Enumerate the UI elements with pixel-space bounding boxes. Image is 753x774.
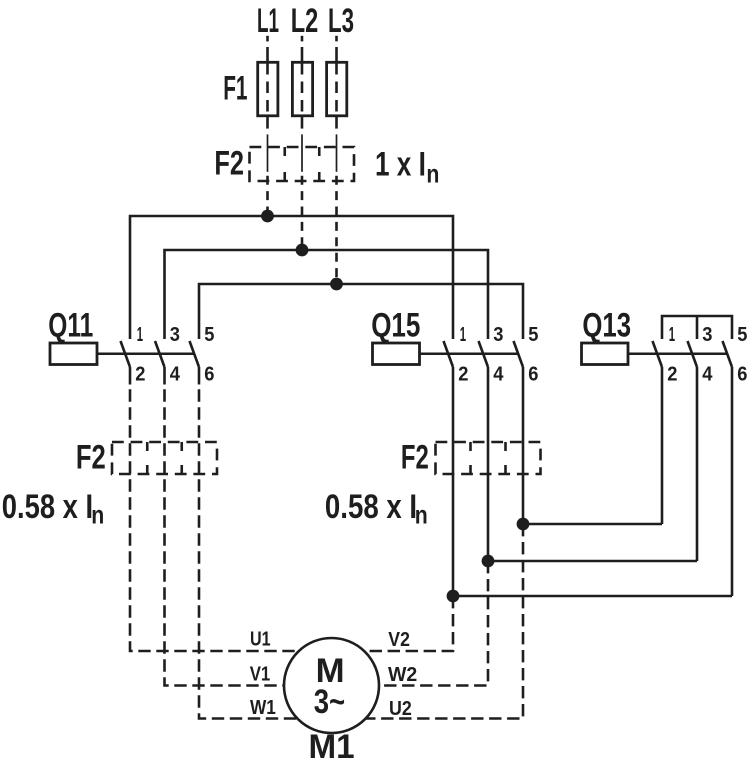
svg-text:6: 6 (737, 363, 747, 386)
svg-text:3: 3 (702, 323, 712, 346)
svg-text:1: 1 (669, 323, 675, 346)
svg-text:U1: U1 (250, 628, 271, 651)
svg-text:L1: L1 (257, 2, 279, 40)
svg-text:3: 3 (170, 323, 180, 346)
svg-text:6: 6 (528, 363, 538, 386)
svg-text:0.58 x I: 0.58 x I (325, 488, 417, 526)
svg-text:L3: L3 (328, 2, 354, 40)
svg-text:4: 4 (170, 363, 181, 386)
svg-text:2: 2 (458, 363, 468, 386)
svg-text:5: 5 (528, 323, 538, 346)
svg-text:L2: L2 (291, 2, 319, 40)
svg-text:W1: W1 (250, 696, 276, 719)
svg-text:F2: F2 (214, 145, 244, 183)
svg-text:0.58 x I: 0.58 x I (2, 488, 93, 526)
svg-text:3: 3 (493, 323, 503, 346)
svg-text:V1: V1 (250, 663, 271, 686)
svg-text:1 x I: 1 x I (375, 146, 426, 184)
svg-text:F2: F2 (76, 438, 106, 476)
svg-text:F2: F2 (401, 438, 429, 476)
svg-text:2: 2 (135, 363, 145, 386)
svg-text:M1: M1 (308, 728, 354, 766)
svg-text:W2: W2 (388, 663, 417, 686)
svg-text:n: n (426, 159, 439, 189)
svg-text:n: n (91, 500, 104, 530)
svg-text:6: 6 (204, 363, 214, 386)
svg-text:Q13: Q13 (582, 307, 631, 345)
svg-text:F1: F1 (223, 70, 247, 108)
svg-text:n: n (415, 500, 428, 530)
svg-text:V2: V2 (388, 628, 410, 651)
svg-text:Q15: Q15 (371, 307, 420, 345)
svg-text:Q11: Q11 (48, 307, 93, 345)
svg-text:4: 4 (702, 363, 713, 386)
svg-text:U2: U2 (389, 697, 412, 720)
svg-text:1: 1 (460, 323, 466, 346)
svg-text:2: 2 (667, 363, 677, 386)
svg-text:3~: 3~ (314, 683, 345, 721)
svg-text:4: 4 (493, 363, 504, 386)
svg-text:5: 5 (737, 323, 747, 346)
svg-text:1: 1 (137, 323, 143, 346)
svg-text:5: 5 (204, 323, 214, 346)
